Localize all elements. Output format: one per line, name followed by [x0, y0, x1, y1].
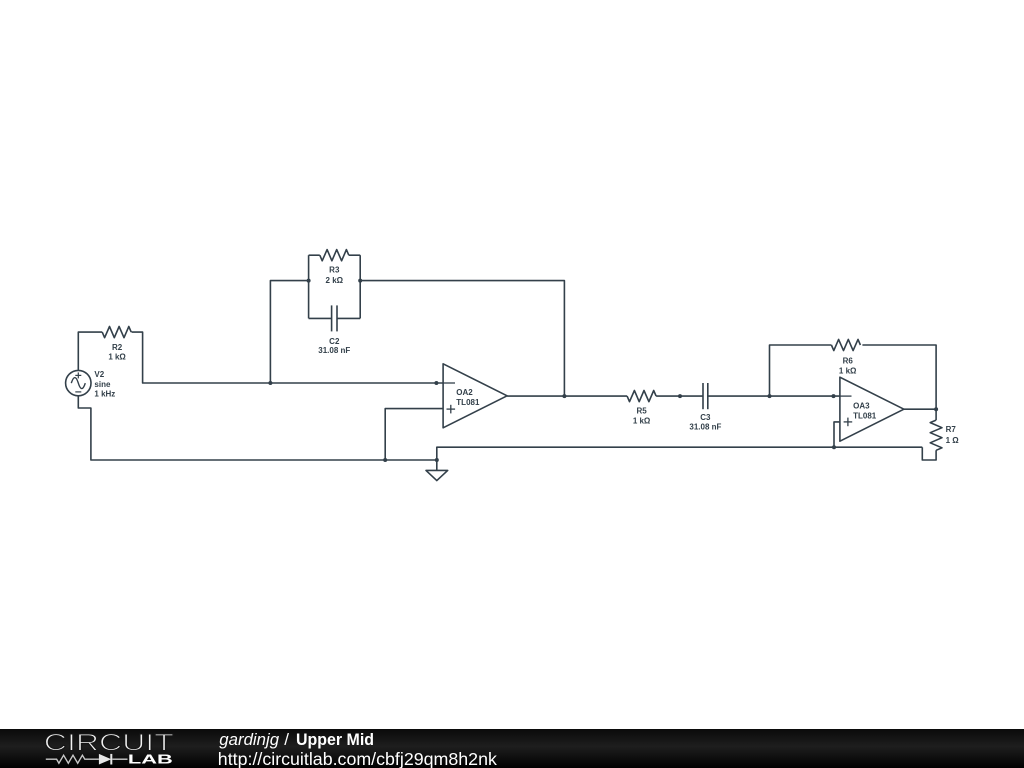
svg-text:V2: V2: [94, 370, 104, 379]
svg-text:Upper Mid: Upper Mid: [296, 730, 374, 749]
svg-text:http://circuitlab.com/cbfj29qm: http://circuitlab.com/cbfj29qm8h2nk: [218, 749, 497, 768]
svg-text:TL081: TL081: [456, 398, 480, 407]
svg-text:1 kΩ: 1 kΩ: [839, 366, 857, 375]
svg-text:R5: R5: [636, 406, 647, 415]
svg-text:R2: R2: [112, 343, 123, 352]
svg-text:OA3: OA3: [853, 401, 870, 410]
svg-text:2 kΩ: 2 kΩ: [326, 276, 344, 285]
svg-text:sine: sine: [94, 380, 111, 389]
svg-text:C2: C2: [329, 337, 340, 346]
svg-text:/: /: [284, 730, 289, 749]
svg-text:1 kHz: 1 kHz: [94, 390, 115, 399]
svg-text:R7: R7: [946, 425, 957, 434]
svg-text:31.08 nF: 31.08 nF: [318, 346, 350, 355]
svg-text:gardinjg: gardinjg: [219, 730, 279, 749]
svg-text:1 kΩ: 1 kΩ: [108, 353, 126, 362]
svg-text:R6: R6: [843, 357, 854, 366]
svg-text:1 Ω: 1 Ω: [946, 436, 960, 445]
svg-text:R3: R3: [329, 266, 340, 275]
svg-text:C3: C3: [700, 413, 711, 422]
svg-text:LAB: LAB: [128, 752, 173, 767]
svg-text:OA2: OA2: [456, 388, 473, 397]
svg-text:TL081: TL081: [853, 411, 877, 420]
svg-text:31.08 nF: 31.08 nF: [689, 423, 721, 432]
svg-text:1 kΩ: 1 kΩ: [633, 417, 651, 426]
